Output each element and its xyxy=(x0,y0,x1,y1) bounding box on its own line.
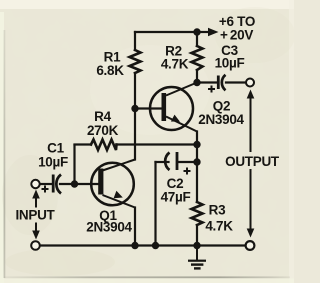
figure border bottom xyxy=(4,276,290,278)
junction node R4 / Q2 emitter xyxy=(193,141,200,148)
svg-text:C1: C1 xyxy=(47,141,64,156)
ground xyxy=(188,246,206,270)
svg-text:R4: R4 xyxy=(94,109,111,124)
svg-text:6.8K: 6.8K xyxy=(96,63,124,78)
junction node C1 / R4 / Q1 base xyxy=(71,180,78,187)
wire R2 bottom to collector node xyxy=(196,70,198,83)
wire supply arrow shaft xyxy=(197,31,210,33)
input arrow up xyxy=(32,190,40,208)
capacitor C1 xyxy=(52,175,61,194)
figure border left xyxy=(4,30,6,278)
output arrow up xyxy=(247,90,255,153)
resistor R2 xyxy=(192,46,203,70)
svg-text:270K: 270K xyxy=(87,123,119,138)
wire C1 to base node xyxy=(60,183,75,185)
svg-text:OUTPUT: OUTPUT xyxy=(225,154,280,169)
wire R1 bottom to Q2 base node xyxy=(134,73,136,109)
svg-text:INPUT: INPUT xyxy=(15,208,55,223)
wire R4 left lead xyxy=(75,143,92,145)
junction node C2 leg / rail xyxy=(152,242,159,249)
svg-text:2N3904: 2N3904 xyxy=(198,112,244,127)
wire R4 right to Q2 emitter node xyxy=(117,143,198,145)
svg-text:+ 20V: + 20V xyxy=(220,28,253,43)
svg-text:2N3904: 2N3904 xyxy=(86,220,132,235)
wire R4 left vertical xyxy=(73,145,75,184)
input arrow down xyxy=(32,223,40,240)
output arrow down xyxy=(247,169,255,238)
junction node R3 / ground xyxy=(193,242,200,249)
svg-text:4.7K: 4.7K xyxy=(205,219,233,234)
junction node R2/C3/Q2 collector xyxy=(193,79,200,86)
wire Q1 base xyxy=(75,183,99,185)
wire R1 top lead xyxy=(134,32,136,50)
wire top rail xyxy=(135,31,197,33)
transistor Q2 xyxy=(150,83,197,132)
wire C2 right lead xyxy=(179,161,198,163)
wire C3 right lead xyxy=(226,81,246,83)
C3 plus sign xyxy=(208,86,215,93)
C2 plus sign xyxy=(184,168,191,175)
svg-text:10µF: 10µF xyxy=(215,56,245,71)
capacitor C2 xyxy=(165,152,178,170)
wire C2 left lead xyxy=(156,161,169,163)
svg-text:4.7K: 4.7K xyxy=(161,57,189,72)
wire Q2 emitter vertical xyxy=(196,132,198,203)
terminal input bottom xyxy=(31,241,40,250)
junction node C2 / emitter line xyxy=(193,158,200,165)
terminal output bottom xyxy=(246,241,255,250)
wire Q2 base xyxy=(135,107,162,109)
capacitor C3 xyxy=(217,75,226,91)
svg-text:R3: R3 xyxy=(209,203,226,218)
wire Q1 emitter vertical xyxy=(134,208,136,246)
wire R2 top lead xyxy=(196,32,198,46)
transistor Q1 xyxy=(91,160,135,208)
wire bottom rail xyxy=(40,244,246,246)
wire input to C1 xyxy=(40,183,51,185)
svg-text:10µF: 10µF xyxy=(38,155,68,170)
wire R3 bottom xyxy=(196,225,198,246)
junction node Q1 emitter / rail xyxy=(131,242,138,249)
resistor R4 xyxy=(91,140,117,151)
resistor R3 xyxy=(192,202,203,225)
svg-text:47µF: 47µF xyxy=(161,190,191,205)
C1 plus sign xyxy=(42,186,49,193)
wire C2 ground leg xyxy=(154,162,156,246)
wire C3 left lead xyxy=(197,81,216,83)
junction node supply xyxy=(193,28,200,35)
junction node Q2 base / R1 xyxy=(131,105,138,112)
resistor R1 xyxy=(130,50,141,73)
terminal output top xyxy=(246,79,254,87)
terminal input top xyxy=(31,180,39,188)
supply arrowhead xyxy=(208,28,219,36)
wire node to Q1 collector xyxy=(134,109,136,160)
